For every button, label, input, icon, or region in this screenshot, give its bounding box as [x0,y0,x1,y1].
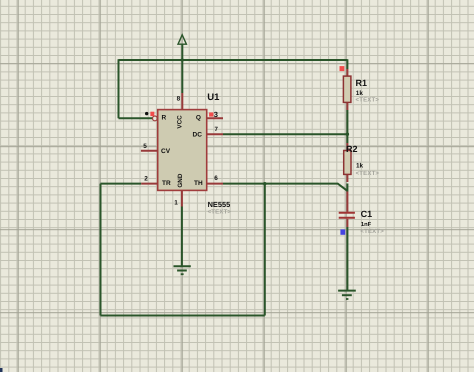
node marker R1 red square [340,66,345,71]
node marker pin 3 red square [209,112,213,116]
wire chip ground [181,207,183,267]
op chip U1 555 body [158,110,207,191]
pin 5 stub [141,150,158,152]
svg-text:R2: R2 [346,144,358,154]
wire pin2 to bottom loop [101,184,265,316]
svg-text:R: R [162,115,167,122]
svg-text:<TEXT>: <TEXT> [208,209,232,216]
wire arrow to VCC pin 8 [181,45,183,93]
svg-text:1k: 1k [356,90,364,97]
svg-text:3: 3 [214,110,218,119]
svg-text:6: 6 [214,175,218,182]
node marker pin 4 red square [150,112,154,116]
node junction at top rail [181,58,184,61]
wire pin6 to R2 bottom [223,184,347,191]
svg-text:2: 2 [144,175,148,182]
wire pin7 to divider [223,133,347,135]
resistor R2 [344,143,351,182]
pin 4 stub with bubble [153,116,158,121]
wire right rail segments [346,59,348,290]
svg-text:1nF: 1nF [361,222,372,228]
svg-text:8: 8 [177,96,181,103]
svg-text:U1: U1 [207,92,220,103]
wire left drop to pin 4 [119,59,153,118]
svg-text:DC: DC [193,131,203,138]
svg-text:NE555: NE555 [208,200,231,209]
node marker C1 blue square [340,229,345,234]
svg-text:TR: TR [162,180,171,187]
capacitor C1 [339,192,355,228]
pin number 4 dot [145,112,148,115]
pin 8 stub [181,93,183,110]
svg-text:GND: GND [177,173,184,187]
pin 1 stub [181,190,183,206]
svg-text:CV: CV [161,148,171,155]
wire top rail [119,59,348,61]
pin 6 stub [207,183,223,185]
ground (chip, pin 1) [174,266,191,274]
corner artifact mark [0,368,3,372]
svg-text:Q: Q [196,115,201,122]
resistor R1 [343,69,351,110]
svg-text:<TEXT>: <TEXT> [356,97,380,104]
svg-text:1: 1 [174,199,178,206]
svg-text:7: 7 [215,126,219,133]
ground (C1) [338,291,356,299]
svg-text:1k: 1k [356,163,364,170]
svg-text:<TEXT>: <TEXT> [356,170,380,177]
svg-text:5: 5 [143,143,147,150]
pin 2 stub [141,183,158,185]
svg-text:VCC: VCC [177,115,184,129]
pin 3 stub [207,117,223,119]
pin 7 stub [207,133,223,135]
svg-text:R1: R1 [356,78,368,88]
svg-text:C1: C1 [361,209,373,219]
node junction pin7 rail [346,133,349,136]
svg-text:<TEXT>: <TEXT> [360,228,384,235]
power symbol VCC arrow [178,35,186,44]
svg-text:TH: TH [194,180,203,187]
node T-junction TR/TH rail [263,182,266,185]
